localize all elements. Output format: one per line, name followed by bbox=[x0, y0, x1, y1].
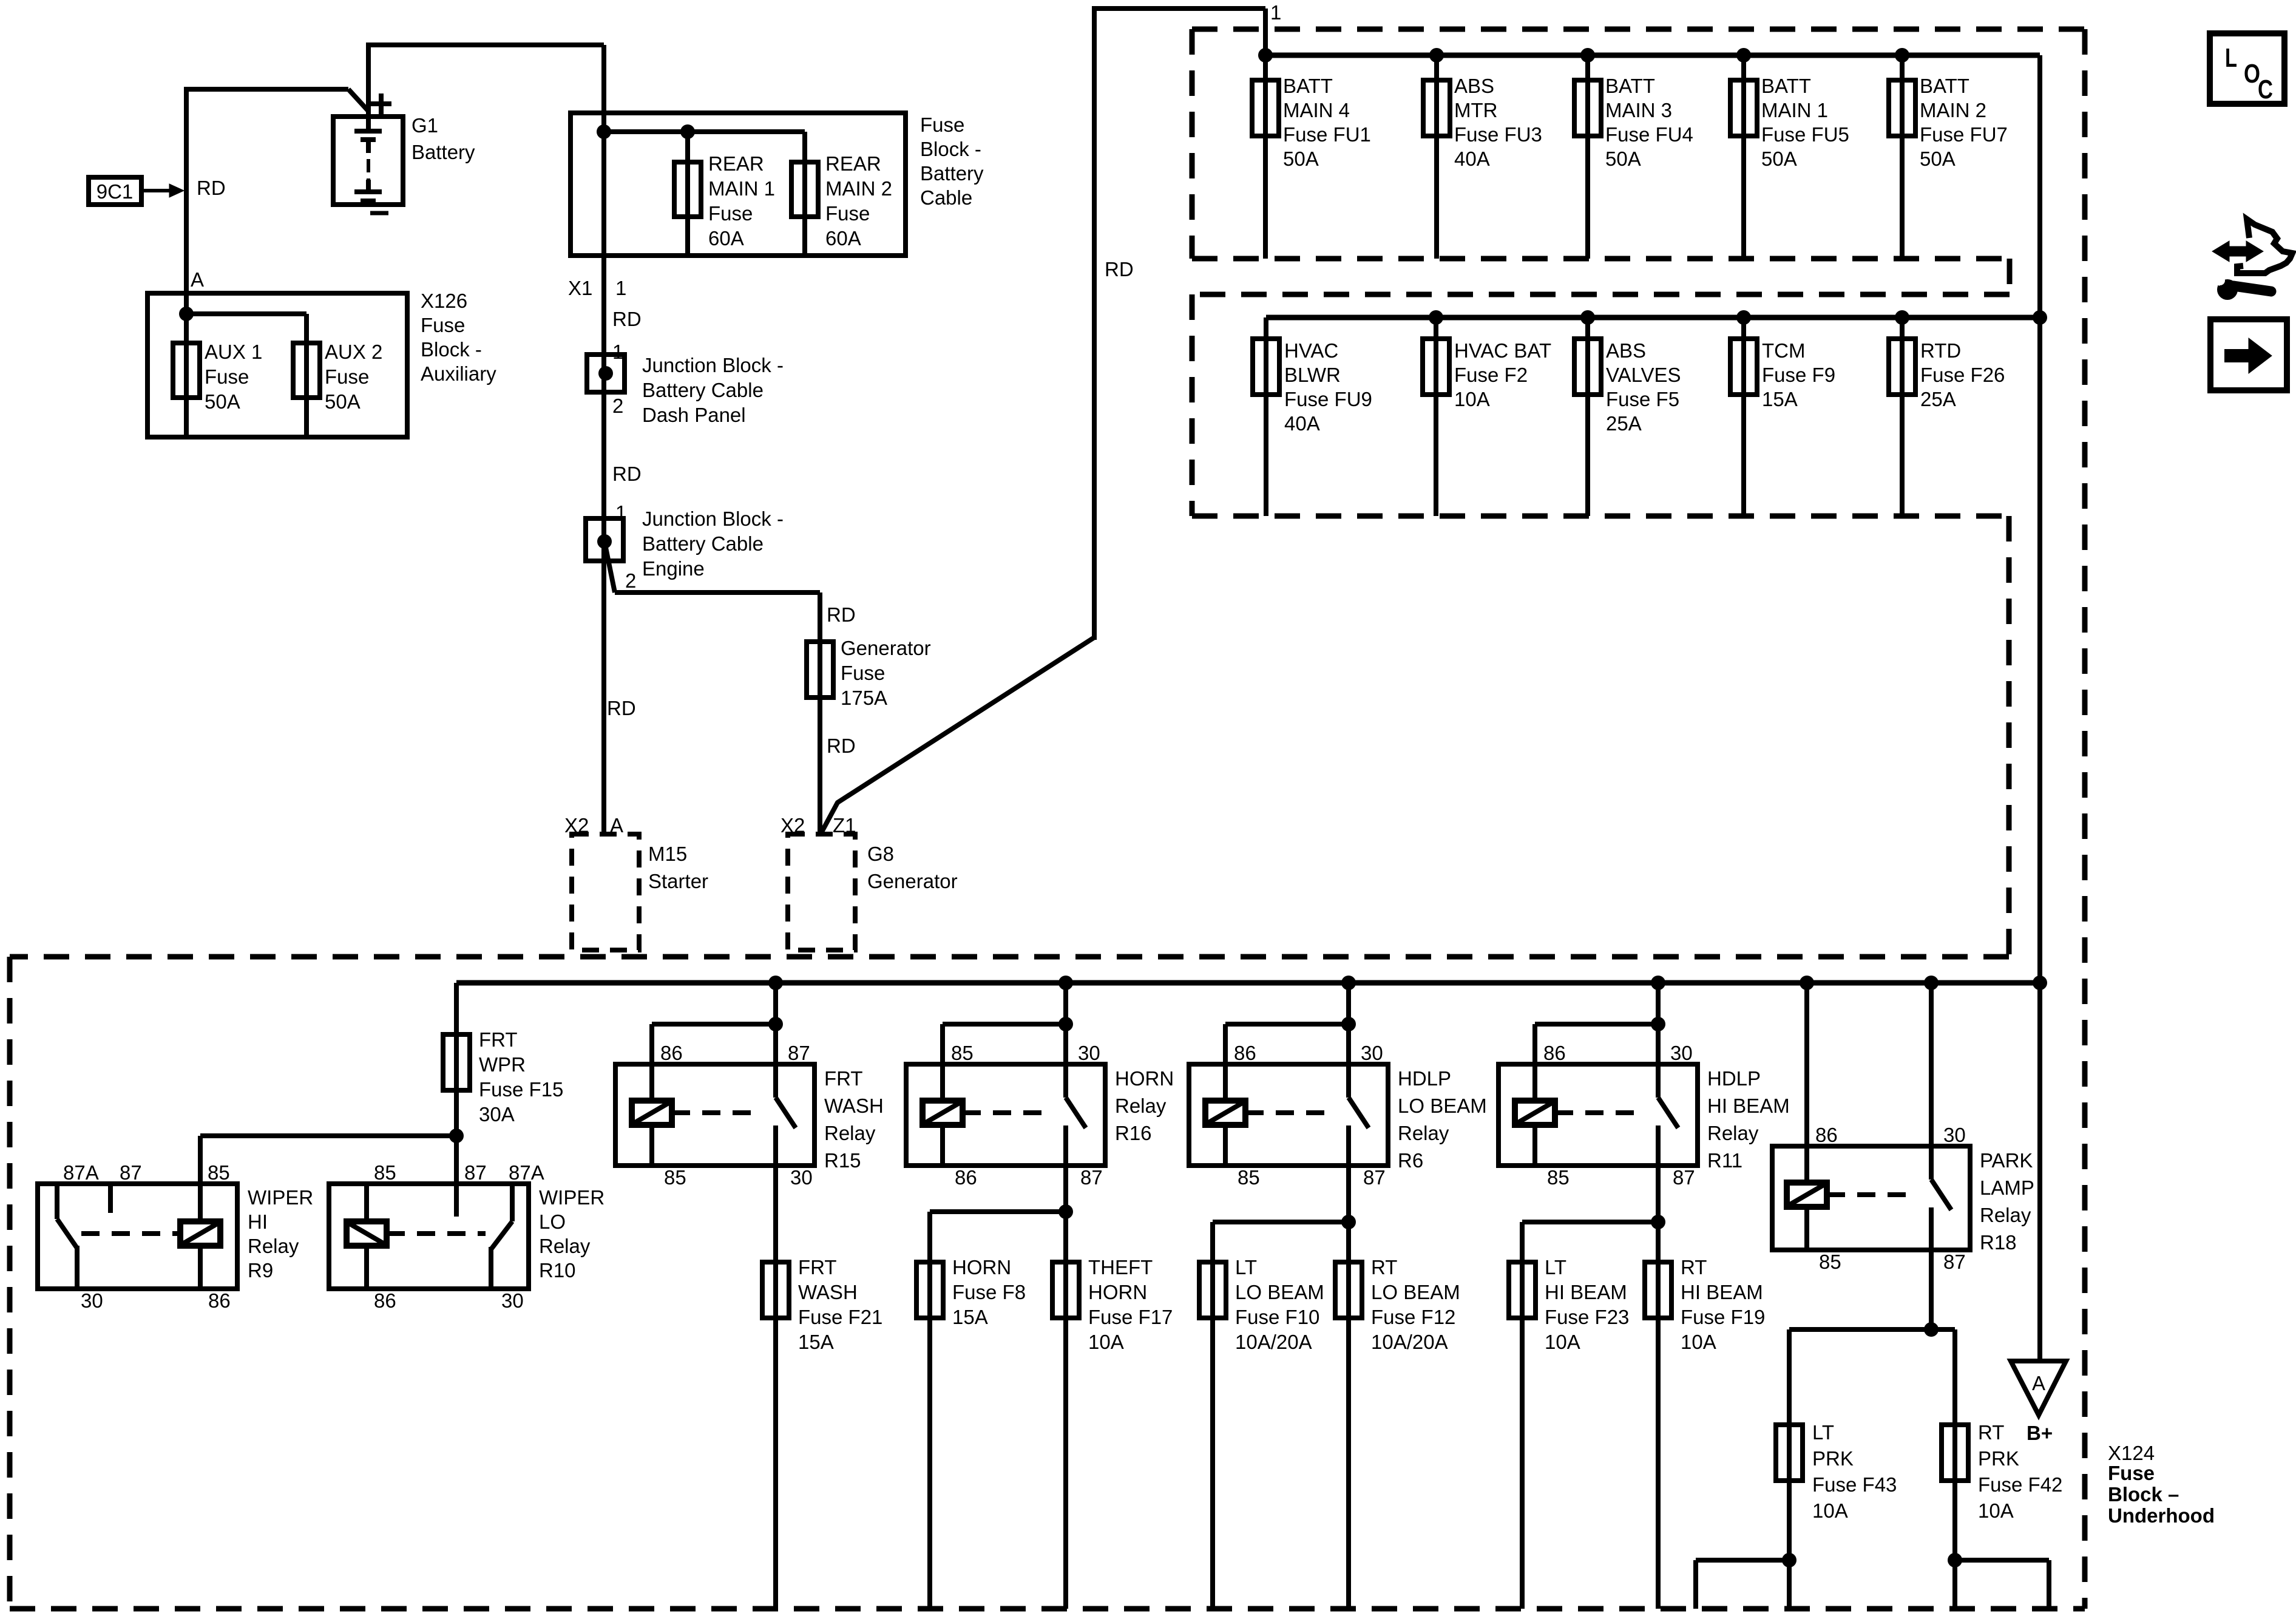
connector M15 starter dashed box bbox=[572, 834, 639, 950]
relay R6 box bbox=[1189, 1064, 1388, 1166]
label FU3 bbox=[1454, 75, 1542, 170]
svg-text:1: 1 bbox=[1270, 1, 1281, 24]
label F12 bbox=[1371, 1256, 1460, 1353]
fuse LT LO BEAM F10 bbox=[1199, 1262, 1226, 1318]
svg-text:Relay: Relay bbox=[824, 1122, 876, 1144]
junction dot lo beam branch bbox=[1341, 1215, 1356, 1229]
svg-text:PRK: PRK bbox=[1978, 1447, 2019, 1470]
label relay R16 bbox=[1115, 1067, 1174, 1144]
wire wiper hi 85 drop bbox=[198, 1136, 203, 1184]
wire drop to relay R16 bbox=[1063, 983, 1068, 1098]
junction dot X126 bbox=[179, 307, 194, 321]
svg-text:MAIN 4: MAIN 4 bbox=[1283, 99, 1350, 121]
svg-text:50A: 50A bbox=[1761, 148, 1797, 170]
svg-text:50A: 50A bbox=[1283, 148, 1319, 170]
svg-text:R18: R18 bbox=[1980, 1231, 2017, 1254]
svg-text:MTR: MTR bbox=[1454, 99, 1497, 121]
wire fuse FU5 vertical bbox=[1741, 55, 1746, 259]
wire top horizontal to battery bbox=[186, 87, 348, 92]
svg-text:2: 2 bbox=[612, 395, 623, 417]
svg-text:15A: 15A bbox=[798, 1331, 834, 1353]
junction block battery cable dash panel box bbox=[587, 355, 625, 392]
fuse block underhood dashed outline box1 bbox=[1192, 29, 2085, 294]
svg-text:Battery: Battery bbox=[411, 141, 475, 163]
svg-text:Fuse FU3: Fuse FU3 bbox=[1454, 123, 1542, 146]
svg-text:175A: 175A bbox=[841, 687, 887, 709]
wire R6 87 down bbox=[1346, 1125, 1351, 1609]
svg-text:HORN: HORN bbox=[952, 1256, 1011, 1278]
relay R18 internals bbox=[1787, 1180, 1951, 1250]
label FU5 bbox=[1761, 75, 1849, 170]
label F21 bbox=[798, 1256, 882, 1353]
svg-text:PRK: PRK bbox=[1812, 1447, 1854, 1470]
svg-text:RT: RT bbox=[1681, 1256, 1707, 1278]
svg-text:X124: X124 bbox=[2108, 1442, 2155, 1464]
wire top horizontal battery to fuse block bbox=[366, 42, 604, 47]
svg-text:RD: RD bbox=[827, 603, 856, 626]
svg-text:LO BEAM: LO BEAM bbox=[1398, 1095, 1487, 1117]
svg-text:40A: 40A bbox=[1454, 148, 1490, 170]
label relay R18 bbox=[1980, 1149, 2034, 1254]
svg-text:87: 87 bbox=[1080, 1166, 1103, 1189]
svg-text:WIPER: WIPER bbox=[539, 1186, 604, 1209]
label G8 Generator bbox=[867, 843, 958, 892]
label AUX 1 bbox=[205, 341, 262, 413]
svg-text:RD: RD bbox=[607, 697, 636, 719]
wire from battery+ to X126 (left vertical) bbox=[184, 87, 189, 293]
fuse block underhood dashed right edge bbox=[2082, 29, 2088, 1609]
icon arrow bbox=[2224, 338, 2272, 373]
wire drop to relay R15 bbox=[773, 983, 778, 1098]
junction dot bus2 F9 bbox=[1736, 310, 1751, 325]
fuse F2 10A bbox=[1423, 339, 1449, 395]
label F10 bbox=[1235, 1256, 1324, 1353]
svg-text:86: 86 bbox=[955, 1166, 977, 1189]
junction dot 86 branch R11 bbox=[1651, 1017, 1665, 1031]
junction dot bus2 F26 bbox=[1895, 310, 1909, 325]
junction dot bus R16 bbox=[1058, 976, 1073, 990]
svg-text:Fuse F10: Fuse F10 bbox=[1235, 1306, 1319, 1328]
wire coil branch R11 bbox=[1535, 1022, 1658, 1027]
wire feed into bus1 bbox=[1263, 8, 1268, 259]
wire coil drop R16 bbox=[940, 1024, 945, 1101]
fuse HORN F8 15A bbox=[916, 1262, 943, 1318]
svg-text:LT: LT bbox=[1812, 1421, 1834, 1444]
svg-text:Relay: Relay bbox=[1115, 1095, 1167, 1117]
svg-text:HI BEAM: HI BEAM bbox=[1681, 1281, 1763, 1303]
wire coil branch R16 bbox=[943, 1022, 1066, 1027]
label FU9 bbox=[1284, 339, 1372, 435]
wire coil branch R6 bbox=[1225, 1022, 1349, 1027]
connector G8 generator dashed box bbox=[788, 834, 855, 950]
wire coil drop R15 bbox=[649, 1024, 654, 1101]
svg-text:LT: LT bbox=[1545, 1256, 1566, 1278]
label M15 Starter bbox=[648, 843, 708, 892]
label F43 bbox=[1812, 1421, 1897, 1522]
relay PARK LAMP R18 box bbox=[1772, 1146, 1970, 1250]
svg-text:1: 1 bbox=[615, 277, 626, 299]
wire F42 branch right bbox=[1955, 1558, 2049, 1563]
icon wrench bbox=[2213, 275, 2271, 300]
svg-text:RD: RD bbox=[1105, 258, 1134, 280]
svg-text:BATT: BATT bbox=[1920, 75, 1969, 97]
svg-text:10A: 10A bbox=[1088, 1331, 1124, 1353]
svg-text:THEFT: THEFT bbox=[1088, 1256, 1153, 1278]
svg-text:B+: B+ bbox=[2027, 1422, 2053, 1444]
icon arrow box bbox=[2210, 319, 2287, 390]
svg-text:Fuse: Fuse bbox=[325, 365, 369, 388]
svg-text:PARK: PARK bbox=[1980, 1149, 2033, 1172]
svg-text:RT: RT bbox=[1978, 1421, 2004, 1444]
svg-text:L: L bbox=[2225, 43, 2237, 73]
junction dot hi beam branch bbox=[1651, 1215, 1665, 1229]
label Fuse Block Underhood bbox=[2108, 1462, 2215, 1527]
svg-text:10A: 10A bbox=[1978, 1499, 2014, 1522]
svg-text:WPR: WPR bbox=[479, 1053, 526, 1076]
svg-text:50A: 50A bbox=[1920, 148, 1956, 170]
svg-text:30: 30 bbox=[1361, 1042, 1383, 1064]
svg-text:10A/20A: 10A/20A bbox=[1235, 1331, 1312, 1353]
svg-text:50A: 50A bbox=[325, 390, 361, 413]
wire fuse FU7 vertical bbox=[1900, 55, 1905, 259]
wire drop to relay R6 bbox=[1346, 983, 1351, 1098]
junction dot bus1 FU4 bbox=[1580, 48, 1595, 63]
junction dot F15 out bbox=[449, 1129, 464, 1143]
wire fuse FU3 vertical bbox=[1434, 55, 1439, 259]
svg-text:9C1: 9C1 bbox=[97, 180, 134, 203]
svg-text:10A: 10A bbox=[1454, 388, 1490, 410]
fuse REAR MAIN 1 60A bbox=[674, 162, 701, 217]
svg-text:Fuse: Fuse bbox=[421, 314, 465, 336]
svg-text:2: 2 bbox=[625, 569, 636, 592]
label AUX 2 bbox=[325, 341, 382, 413]
svg-text:X1: X1 bbox=[568, 277, 592, 299]
svg-text:Fuse F2: Fuse F2 bbox=[1454, 364, 1528, 386]
svg-text:BLWR: BLWR bbox=[1284, 364, 1341, 386]
wire generator fuse vertical bbox=[818, 592, 822, 834]
junction dot prk branch bbox=[1924, 1322, 1939, 1337]
wire fuse F26 vertical bbox=[1900, 317, 1905, 516]
wire fuse F5 vertical bbox=[1585, 317, 1590, 516]
wire hi beam branch bbox=[1522, 1220, 1658, 1224]
junction dot bus2 F5 bbox=[1580, 310, 1595, 325]
label F5 bbox=[1606, 339, 1681, 435]
wire F43 branch left bbox=[1696, 1558, 1789, 1563]
svg-text:86: 86 bbox=[374, 1289, 396, 1312]
label Fuse Block - Battery Cable bbox=[920, 114, 984, 209]
svg-text:HI BEAM: HI BEAM bbox=[1707, 1095, 1790, 1117]
wire F42 stub down bbox=[2047, 1560, 2051, 1609]
wire to wiper hi relay bbox=[200, 1133, 456, 1138]
svg-text:85: 85 bbox=[1238, 1166, 1260, 1189]
svg-text:85: 85 bbox=[664, 1166, 686, 1189]
wire coil drop R6 bbox=[1223, 1024, 1228, 1101]
svg-text:Block -: Block - bbox=[421, 338, 482, 361]
svg-text:30: 30 bbox=[1078, 1042, 1100, 1064]
svg-text:30: 30 bbox=[1943, 1124, 1966, 1146]
wire fuse F9 vertical bbox=[1741, 317, 1746, 516]
svg-text:REAR: REAR bbox=[708, 152, 764, 175]
svg-text:30A: 30A bbox=[479, 1103, 515, 1125]
fuse F5 25A bbox=[1574, 339, 1601, 395]
junction dot 86 branch R6 bbox=[1341, 1017, 1356, 1031]
relay R10 internals bbox=[347, 1184, 512, 1289]
wire AUX2 vertical bbox=[304, 314, 309, 437]
wire R15 30 to F21 bbox=[773, 1125, 778, 1609]
svg-text:Battery Cable: Battery Cable bbox=[642, 532, 764, 555]
junction dot bus R11 bbox=[1651, 976, 1665, 990]
fuse AUX 2 50A bbox=[293, 343, 320, 398]
fuse LT HI BEAM F23 10A bbox=[1509, 1262, 1536, 1318]
svg-text:A: A bbox=[191, 268, 204, 291]
wire X126 inner horizontal bbox=[186, 311, 306, 316]
svg-text:10A: 10A bbox=[1545, 1331, 1580, 1353]
battery + symbol bbox=[371, 93, 391, 114]
svg-text:Dash Panel: Dash Panel bbox=[642, 404, 746, 426]
wire drop to relay R11 bbox=[1656, 983, 1661, 1098]
fuse block X124 dashed outline bbox=[10, 957, 2085, 1609]
svg-text:86: 86 bbox=[660, 1042, 683, 1064]
battery plates bbox=[354, 131, 382, 201]
svg-text:FRT: FRT bbox=[479, 1028, 518, 1051]
svg-text:Relay: Relay bbox=[539, 1235, 591, 1257]
svg-text:85: 85 bbox=[1819, 1251, 1841, 1273]
fuse THEFT HORN F17 10A bbox=[1052, 1262, 1079, 1318]
svg-text:86: 86 bbox=[1234, 1042, 1256, 1064]
wire F8 vertical bbox=[927, 1212, 932, 1609]
relay WIPER LO R10 box bbox=[329, 1184, 529, 1289]
fuse FU5 50A bbox=[1730, 80, 1757, 136]
svg-text:50A: 50A bbox=[205, 390, 240, 413]
svg-text:Fuse F19: Fuse F19 bbox=[1681, 1306, 1765, 1328]
wire X1 main vertical bbox=[601, 45, 606, 834]
svg-text:10A: 10A bbox=[1681, 1331, 1716, 1353]
wire REAR MAIN 1 vertical bbox=[685, 132, 690, 256]
svg-text:WASH: WASH bbox=[798, 1281, 858, 1303]
svg-text:30: 30 bbox=[1670, 1042, 1693, 1064]
svg-text:M15: M15 bbox=[648, 843, 687, 865]
label WIPER HI Relay R9 bbox=[248, 1186, 313, 1282]
svg-text:Fuse: Fuse bbox=[708, 202, 753, 225]
svg-text:WIPER: WIPER bbox=[248, 1186, 313, 1209]
junction block battery cable engine box bbox=[586, 518, 623, 561]
label relay R15 bbox=[824, 1067, 884, 1172]
wire bus2 bbox=[1266, 315, 2040, 321]
junction dot bus2 right bbox=[2033, 310, 2047, 325]
svg-text:MAIN 1: MAIN 1 bbox=[1761, 99, 1828, 121]
svg-text:LO BEAM: LO BEAM bbox=[1235, 1281, 1324, 1303]
svg-text:Fuse F21: Fuse F21 bbox=[798, 1306, 882, 1328]
relay R11 internals bbox=[1515, 1098, 1678, 1166]
svg-text:Cable: Cable bbox=[920, 186, 972, 209]
svg-text:LAMP: LAMP bbox=[1980, 1176, 2034, 1199]
svg-text:HI BEAM: HI BEAM bbox=[1545, 1281, 1627, 1303]
label REAR MAIN 1 bbox=[708, 152, 775, 250]
svg-text:A: A bbox=[2032, 1372, 2045, 1394]
svg-text:Fuse F43: Fuse F43 bbox=[1812, 1473, 1897, 1496]
svg-text:HDLP: HDLP bbox=[1707, 1067, 1761, 1090]
label Junction Block - Battery Cable Dash Panel bbox=[642, 354, 784, 426]
power symbol A / B+ triangle bbox=[2011, 1361, 2066, 1415]
svg-text:60A: 60A bbox=[708, 227, 744, 250]
svg-text:Underhood: Underhood bbox=[2108, 1504, 2215, 1527]
svg-text:87A: 87A bbox=[63, 1161, 99, 1184]
relay R11 box bbox=[1498, 1064, 1698, 1166]
svg-text:86: 86 bbox=[1815, 1124, 1838, 1146]
svg-text:MAIN 3: MAIN 3 bbox=[1605, 99, 1672, 121]
svg-text:RD: RD bbox=[827, 735, 856, 757]
svg-text:30: 30 bbox=[81, 1289, 103, 1312]
junction dot bus1 FU7 bbox=[1895, 48, 1909, 63]
svg-text:MAIN 1: MAIN 1 bbox=[708, 177, 775, 200]
svg-text:Auxiliary: Auxiliary bbox=[421, 362, 496, 385]
svg-text:Fuse F17: Fuse F17 bbox=[1088, 1306, 1173, 1328]
svg-text:R15: R15 bbox=[824, 1149, 861, 1172]
label F2 bbox=[1454, 339, 1551, 410]
svg-text:RD: RD bbox=[612, 308, 642, 330]
junction dot at X1 in fuse block bbox=[597, 124, 611, 139]
junction dot bus R18 30 bbox=[1924, 976, 1939, 990]
battery - symbol bbox=[370, 211, 388, 216]
svg-text:BATT: BATT bbox=[1605, 75, 1655, 97]
wire R16 87 down bbox=[1063, 1125, 1068, 1609]
wire battery + up bbox=[366, 45, 371, 129]
svg-text:Fuse F9: Fuse F9 bbox=[1762, 364, 1835, 386]
label relay R6 bbox=[1398, 1067, 1487, 1172]
wire F42 vertical bbox=[1952, 1329, 1957, 1609]
svg-text:RT: RT bbox=[1371, 1256, 1397, 1278]
svg-text:86: 86 bbox=[1543, 1042, 1566, 1064]
wire coil branch R15 bbox=[652, 1022, 776, 1027]
junction dot bus1 FU5 bbox=[1736, 48, 1751, 63]
fuse RT LO BEAM F12 bbox=[1335, 1262, 1362, 1318]
svg-text:AUX 1: AUX 1 bbox=[205, 341, 262, 363]
wire drop R18 86 bbox=[1804, 983, 1809, 1183]
wire fuse F2 vertical bbox=[1434, 317, 1438, 516]
fuse F26 25A bbox=[1889, 339, 1915, 395]
svg-text:G1: G1 bbox=[411, 114, 438, 137]
fuse block underhood dashed outline box2 bbox=[1192, 294, 2010, 957]
svg-text:30: 30 bbox=[790, 1166, 813, 1189]
wire REAR MAIN 2 vertical bbox=[802, 132, 807, 256]
arrow from 9C1 bbox=[141, 189, 172, 192]
svg-text:Generator: Generator bbox=[841, 637, 931, 659]
wire R18 87 down bbox=[1929, 1250, 1934, 1329]
svg-text:RTD: RTD bbox=[1920, 339, 1961, 362]
junction dot engine bbox=[597, 534, 612, 549]
svg-text:1: 1 bbox=[612, 341, 623, 363]
svg-text:HVAC BAT: HVAC BAT bbox=[1454, 339, 1551, 362]
svg-text:30: 30 bbox=[501, 1289, 524, 1312]
wire R11 87 down bbox=[1656, 1125, 1661, 1609]
svg-text:WASH: WASH bbox=[824, 1095, 884, 1117]
svg-text:LO BEAM: LO BEAM bbox=[1371, 1281, 1460, 1303]
svg-text:Fuse: Fuse bbox=[841, 662, 885, 684]
svg-text:LO: LO bbox=[539, 1210, 566, 1233]
svg-text:Starter: Starter bbox=[648, 870, 708, 892]
relay R9 internals bbox=[57, 1184, 220, 1289]
relay R16 internals bbox=[923, 1098, 1086, 1166]
wire F23 vertical bbox=[1520, 1222, 1525, 1609]
svg-text:86: 86 bbox=[208, 1289, 231, 1312]
junction dot REAR MAIN 1 bbox=[680, 124, 695, 139]
icon LOC box bbox=[2210, 33, 2284, 104]
wire AUX1 vertical bbox=[184, 293, 189, 437]
svg-text:BATT: BATT bbox=[1761, 75, 1811, 97]
junction dot F42 out bbox=[1948, 1553, 1962, 1567]
junction dot bus R18 86 bbox=[1800, 976, 1814, 990]
fuse REAR MAIN 2 60A bbox=[791, 162, 818, 217]
relay R15 internals bbox=[632, 1098, 796, 1166]
label F42 bbox=[1978, 1421, 2062, 1522]
svg-text:87: 87 bbox=[788, 1042, 810, 1064]
svg-text:RD: RD bbox=[197, 177, 226, 199]
label F23 bbox=[1545, 1256, 1629, 1353]
wire horizontal to generator fuse bbox=[615, 590, 820, 595]
label F17 bbox=[1088, 1256, 1173, 1353]
svg-text:AUX 2: AUX 2 bbox=[325, 341, 382, 363]
svg-text:FRT: FRT bbox=[798, 1256, 837, 1278]
junction dot horn branch bbox=[1058, 1204, 1073, 1219]
wire long diagonal from RD vertical to generator bbox=[821, 637, 1094, 834]
fuse LT PRK F43 10A bbox=[1776, 1425, 1803, 1481]
svg-text:REAR: REAR bbox=[825, 152, 881, 175]
fuse FU3 40A bbox=[1423, 80, 1450, 136]
label WIPER LO Relay R10 bbox=[539, 1186, 604, 1282]
svg-text:60A: 60A bbox=[825, 227, 861, 250]
svg-text:HORN: HORN bbox=[1115, 1067, 1174, 1090]
fuse block battery cable box bbox=[571, 113, 906, 256]
svg-text:R10: R10 bbox=[539, 1259, 576, 1282]
fuse FU1 50A bbox=[1252, 80, 1279, 136]
svg-text:85: 85 bbox=[951, 1042, 974, 1064]
wire F43 vertical bbox=[1787, 1329, 1792, 1609]
svg-text:Junction Block -: Junction Block - bbox=[642, 508, 784, 530]
svg-text:Fuse FU5: Fuse FU5 bbox=[1761, 123, 1849, 146]
wire RD right vertical bbox=[1092, 8, 1097, 640]
svg-text:R6: R6 bbox=[1398, 1149, 1423, 1172]
junction dot bus R6 bbox=[1341, 976, 1356, 990]
fuse F9 15A bbox=[1730, 339, 1757, 395]
svg-text:Battery Cable: Battery Cable bbox=[642, 379, 764, 401]
wire top feed horizontal bbox=[1092, 6, 1265, 11]
svg-text:Fuse F42: Fuse F42 bbox=[1978, 1473, 2062, 1496]
svg-text:Fuse F8: Fuse F8 bbox=[952, 1281, 1026, 1303]
wire F43 stub down bbox=[1693, 1560, 1698, 1609]
svg-text:C: C bbox=[2258, 75, 2273, 104]
junction dot dash panel bbox=[598, 366, 613, 381]
svg-text:50A: 50A bbox=[1605, 148, 1641, 170]
icon LOC letters bbox=[2225, 43, 2273, 104]
fuse FU4 50A bbox=[1574, 80, 1601, 136]
svg-text:87: 87 bbox=[120, 1161, 142, 1184]
wire fuse FU4 vertical bbox=[1585, 55, 1590, 259]
svg-text:Relay: Relay bbox=[1707, 1122, 1759, 1144]
wire horn branch bbox=[930, 1209, 1066, 1214]
svg-text:Fuse: Fuse bbox=[2108, 1462, 2155, 1484]
svg-text:Relay: Relay bbox=[1980, 1204, 2031, 1226]
wire X124 bus bbox=[456, 980, 2040, 986]
label REAR MAIN 2 bbox=[825, 152, 892, 250]
wire diagonal into battery + bbox=[348, 89, 368, 111]
svg-text:X126: X126 bbox=[421, 290, 467, 312]
junction dot bus1 FU3 bbox=[1429, 48, 1444, 63]
svg-text:HORN: HORN bbox=[1088, 1281, 1147, 1303]
junction dot F43 out bbox=[1782, 1553, 1797, 1567]
wire inner horizontal fuse block bbox=[604, 129, 805, 134]
svg-text:Relay: Relay bbox=[248, 1235, 299, 1257]
label FU4 bbox=[1605, 75, 1693, 170]
